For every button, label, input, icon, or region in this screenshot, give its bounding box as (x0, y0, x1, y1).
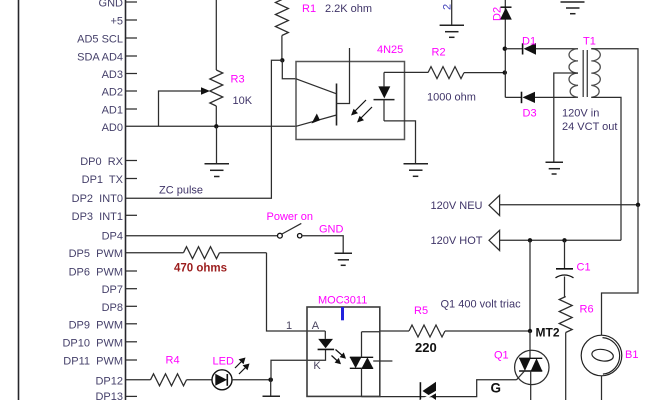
svg-text:B1: B1 (625, 349, 638, 361)
label C1 (577, 262, 591, 274)
wire T1 primary top to NEU bus (591, 49, 638, 205)
label R6 (580, 304, 594, 316)
node D1 junction (503, 47, 507, 51)
svg-text:MOC3011: MOC3011 (318, 295, 367, 307)
microcontroller U1 left edge (18, 0, 20, 400)
label R2 (432, 47, 446, 59)
pin DP7 (102, 284, 137, 296)
label 120V in (562, 108, 599, 120)
svg-text:DP12: DP12 (95, 375, 123, 387)
svg-text:MT2: MT2 (536, 326, 560, 340)
diode D4 on gate line (420, 382, 440, 400)
label 24 VCT out (562, 121, 617, 133)
pin AD2 (102, 87, 137, 99)
svg-text:+5: +5 (110, 16, 123, 28)
pin DP12 (95, 375, 123, 387)
svg-text:DP10 PWM: DP10 PWM (62, 337, 123, 349)
wire junction down to ground (270, 380, 272, 396)
svg-text:DP2 INT0: DP2 INT0 (72, 193, 123, 205)
svg-text:R3: R3 (231, 74, 245, 86)
LED light arrows (235, 358, 250, 375)
pin AD5 SCL (77, 34, 137, 46)
svg-text:G: G (491, 381, 502, 396)
svg-text:DP1 TX: DP1 TX (82, 174, 124, 186)
resistor R1 (275, 0, 288, 60)
ground top right (561, 2, 585, 14)
wire 4N25 cathode to ground (384, 121, 416, 163)
wire gate G (362, 380, 517, 397)
svg-text:470 ohms: 470 ohms (174, 263, 227, 275)
pin DP13 (95, 391, 137, 400)
ground bottom LED (263, 395, 281, 397)
LED indicator (212, 370, 269, 390)
svg-text:24 VCT out: 24 VCT out (562, 121, 617, 133)
wire 470 to MOC anode (267, 253, 326, 331)
label ZC pulse (159, 185, 203, 197)
wire 4N25 anode to R2 (384, 71, 428, 73)
node HOT/C1 junction (562, 238, 566, 242)
pin DP5 PWM (69, 248, 123, 260)
potentiometer R3 (210, 0, 223, 126)
switch Power on (278, 223, 302, 238)
svg-text:2.2K ohm: 2.2K ohm (325, 3, 372, 15)
wire NEU down to B1 (602, 205, 639, 335)
resistor R6 (559, 297, 572, 400)
svg-text:Q1 400 volt triac: Q1 400 volt triac (441, 299, 522, 311)
svg-text:LED: LED (213, 356, 234, 368)
label 120V HOT (431, 235, 483, 247)
wire R1 junction to 4N25 collector (282, 60, 296, 79)
svg-text:120V NEU: 120V NEU (431, 200, 483, 212)
wire stub top left of D2 (451, 0, 453, 25)
svg-text:4N25: 4N25 (377, 44, 403, 56)
node MT2 junction (528, 329, 532, 333)
label D3 (523, 108, 537, 120)
label 470 ohms (174, 263, 227, 275)
label R5 (414, 305, 428, 317)
transformer T1 (569, 49, 600, 98)
svg-text:DP6 PWM: DP6 PWM (69, 267, 123, 279)
label T1 (583, 36, 596, 48)
wire MOC K to junction (271, 350, 326, 380)
label 120V NEU (431, 200, 483, 212)
svg-text:K: K (313, 360, 321, 372)
svg-text:D1: D1 (522, 36, 536, 48)
diode D1 (505, 43, 578, 55)
svg-text:120V HOT: 120V HOT (431, 235, 483, 247)
light arrows inside MOC3011 (332, 350, 347, 365)
svg-text:R4: R4 (166, 355, 180, 367)
svg-text:R5: R5 (414, 305, 428, 317)
svg-text:DP5 PWM: DP5 PWM (69, 248, 123, 260)
label D1 (522, 36, 536, 48)
svg-text:C1: C1 (577, 262, 591, 274)
svg-text:AD1: AD1 (102, 105, 123, 117)
svg-text:A: A (312, 320, 320, 332)
label D2 rotated (492, 7, 504, 21)
pin DP4 (102, 231, 123, 243)
ground below stub 2 (440, 25, 464, 37)
pin DP2 INT0 (72, 193, 123, 205)
svg-text:AD2: AD2 (102, 87, 123, 99)
wire NEU (500, 204, 638, 206)
label MOC3011 (318, 295, 367, 307)
svg-text:DP11 PWM: DP11 PWM (63, 356, 123, 368)
diode LED inside MOC3011 (318, 331, 335, 349)
lamp B1 (581, 335, 622, 400)
wire HOT (500, 239, 621, 241)
label 2.2K ohm (325, 3, 372, 15)
triac Q1 (515, 331, 549, 400)
svg-text:T1: T1 (583, 36, 596, 48)
pin DP9 PWM (69, 319, 137, 331)
label LED (213, 356, 234, 368)
pin DP10 PWM (62, 337, 137, 349)
svg-text:AD0: AD0 (102, 122, 123, 134)
label R4 (166, 355, 180, 367)
pin DP0 RX (80, 156, 137, 168)
pin GND (99, 0, 137, 10)
blue mark (341, 307, 344, 320)
node R1 bottom junction (280, 58, 284, 62)
svg-text:R6: R6 (580, 304, 594, 316)
wire DP12 to R4 (126, 379, 151, 381)
svg-text:1: 1 (286, 320, 292, 332)
node R2/D junction (503, 70, 507, 74)
svg-text:SDA AD4: SDA AD4 (77, 52, 123, 64)
wire MOC triac top to R5 (362, 331, 380, 333)
svg-text:DP3 INT1: DP3 INT1 (72, 211, 123, 223)
optocoupler MOC3011 box (307, 307, 380, 396)
wire diode bus vertical (504, 0, 506, 97)
ground under 4N25 (404, 164, 429, 177)
wire HOT to MT2 (529, 240, 531, 331)
pin DP6 PWM (69, 267, 137, 279)
diode D2 (500, 7, 512, 19)
microcontroller U1 right edge (125, 0, 127, 400)
label 1000 ohm (427, 92, 476, 104)
label R1 (302, 3, 316, 15)
wire R3 junction to ground (216, 126, 218, 163)
label R3 (231, 74, 245, 86)
resistor R2 (428, 67, 505, 79)
svg-text:DP4: DP4 (102, 231, 123, 243)
svg-text:GND: GND (99, 0, 124, 10)
wire switch to ground (302, 236, 343, 253)
pin AD0 (102, 122, 123, 134)
node R3 bottom junction (214, 124, 218, 128)
wire C1 top lead (564, 240, 566, 268)
arrow 120V NEU (489, 195, 500, 215)
svg-text:Power on: Power on (267, 211, 313, 223)
label Q1 400 volt triac (441, 299, 522, 311)
label Q1 (494, 350, 509, 362)
svg-text:D2: D2 (492, 7, 504, 21)
svg-text:120V in: 120V in (562, 108, 599, 120)
resistor R5 (380, 325, 530, 337)
diode LED inside 4N25 (374, 72, 395, 121)
label G (491, 381, 502, 396)
ground at switch (335, 253, 353, 265)
light arrows inside 4N25 (351, 100, 372, 123)
svg-text:Q1: Q1 (494, 350, 509, 362)
svg-text:DP13: DP13 (95, 391, 123, 400)
pin DP1 TX (82, 174, 137, 186)
label K (313, 360, 321, 372)
wire T1 center tap (554, 73, 578, 162)
svg-text:AD5 SCL: AD5 SCL (77, 34, 123, 46)
label 2 rotated blue (442, 4, 454, 10)
wire T1 primary bottom to HOT (591, 97, 621, 240)
arrow 120V HOT (489, 230, 500, 250)
svg-text:DP9 PWM: DP9 PWM (69, 319, 123, 331)
wire DP4 to switch (126, 235, 278, 237)
pin SDA AD4 (77, 52, 137, 64)
svg-text:DP8: DP8 (102, 302, 123, 314)
pin DP8 (102, 302, 137, 314)
pin +5 (110, 16, 137, 28)
svg-text:AD3: AD3 (102, 69, 123, 81)
label MT2 (536, 326, 560, 340)
node LED cathode junction (268, 378, 273, 383)
pin DP3 INT1 (72, 211, 137, 223)
svg-text:R2: R2 (432, 47, 446, 59)
label 220 (415, 340, 437, 355)
resistor R4 (151, 374, 213, 386)
pin DP11 PWM (63, 356, 137, 368)
wiper arrowhead (201, 87, 210, 95)
label pin 1 (286, 320, 292, 332)
ground T1 center tap (546, 162, 564, 174)
wire branch to R3 wiper (159, 91, 203, 126)
node NEU junction (636, 203, 640, 207)
wire ZC pulse: DP2 INT0 to R1 junction (126, 60, 283, 198)
diode D3 (505, 92, 578, 104)
svg-text:1000 ohm: 1000 ohm (427, 92, 476, 104)
svg-text:ZC pulse: ZC pulse (159, 185, 203, 197)
wire AD0 to R3 bottom and 4N25 emitter (126, 125, 297, 127)
pin AD3 (102, 69, 137, 81)
resistor R470 DP5 (126, 247, 267, 259)
svg-text:DP7: DP7 (102, 284, 123, 296)
svg-text:DP0 RX: DP0 RX (80, 156, 123, 168)
node HOT/MT2 junction (528, 238, 532, 242)
svg-text:220: 220 (415, 340, 437, 355)
op-to coupler 4N25 box (296, 62, 405, 140)
svg-text:R1: R1 (302, 3, 316, 15)
transistor Q (4N25 phototransistor) (296, 48, 350, 126)
capacitor C1 (556, 269, 574, 297)
label 10K (233, 95, 253, 107)
label B1 (625, 349, 638, 361)
ground under R3 (205, 164, 230, 177)
label Power on (267, 211, 313, 223)
triac inside MOC3011 (350, 332, 393, 397)
label 4N25 (377, 44, 403, 56)
label A (312, 320, 320, 332)
label GND (319, 224, 344, 236)
pin AD1 (102, 105, 137, 117)
svg-text:2: 2 (442, 4, 454, 10)
svg-text:GND: GND (319, 224, 344, 236)
svg-text:D3: D3 (523, 108, 537, 120)
svg-text:10K: 10K (233, 95, 253, 107)
